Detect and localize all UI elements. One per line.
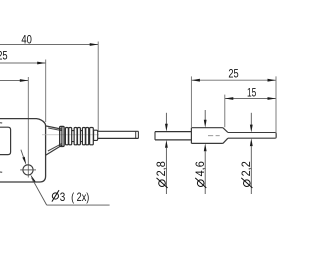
screw hole crosshair horizontal: [20, 169, 36, 171]
display window rounded rect: [0, 127, 11, 154]
dia 4.6 label: [193, 161, 207, 188]
bellows valley 2: [80, 131, 82, 142]
cable left view: [98, 131, 139, 138]
hole label diameter symbol: [52, 193, 58, 199]
svg-text:2,8: 2,8: [154, 161, 168, 177]
dimension 40 line: [0, 44, 98, 46]
leader underline: [47, 204, 110, 206]
dimension 15 line: [225, 98, 276, 100]
extension line body right step: [224, 95, 226, 128]
25 right arrow right: [268, 79, 277, 82]
cable right view: [155, 132, 191, 140]
dia 2.2 leader: [250, 146, 252, 194]
nose bottom inner line: [48, 144, 62, 151]
25 right arrow left: [191, 79, 200, 82]
bellows bump 3: [82, 128, 85, 145]
svg-text:40: 40: [21, 33, 32, 47]
dia 2.8 upper arrow: [165, 124, 168, 132]
dia 4.6 leader: [204, 151, 206, 194]
probe body chamfer bottom: [223, 138, 228, 143]
leader line lower segment: [32, 178, 47, 205]
dimension 25 arrow: [37, 62, 46, 65]
dia 2.8 upper arrow line: [165, 113, 167, 124]
strain relief clamp ring: [60, 126, 64, 146]
leader line upper segment for hole dia: [21, 150, 24, 157]
dia 4.6 lower arrow: [204, 143, 207, 151]
dia 2.2 label: [239, 161, 253, 188]
probe tip end cap: [275, 133, 276, 139]
bellows end sleeve: [94, 130, 98, 140]
extension line body left: [190, 76, 192, 127]
nose top inner line: [48, 128, 62, 131]
cut feature tick upper left edge: [0, 122, 2, 124]
leader lower arrow: [30, 174, 35, 182]
dimension extension line down to screw hole: [27, 77, 29, 178]
bellows bump 2: [74, 128, 77, 145]
bellows valley 3: [88, 131, 91, 142]
svg-text:25: 25: [228, 67, 239, 81]
cable end cap: [137, 131, 139, 138]
screw hole circle: [23, 165, 33, 175]
dia 2.8 label: [154, 161, 168, 188]
15 arrow right: [268, 97, 277, 100]
svg-text:2,2: 2,2: [239, 161, 253, 176]
centerline dashes right view: [208, 135, 220, 137]
svg-text:25: 25: [0, 48, 8, 62]
nose top taper: [46, 126, 62, 129]
leader upper arrow: [22, 157, 26, 165]
dimension 40 extension line: [97, 42, 99, 132]
dimension 25 extension line: [45, 60, 47, 123]
clamp ring inner line: [61, 127, 63, 146]
nose bottom taper: [46, 145, 62, 155]
dimension 40 arrow: [90, 43, 99, 46]
extension line tip end: [275, 76, 277, 137]
bellows bump 4: [90, 128, 94, 145]
housing body outline: [0, 119, 46, 182]
svg-text:( 2x): ( 2x): [71, 190, 89, 204]
dia 4.6 upper arrow: [204, 120, 207, 128]
cable left cap: [154, 132, 156, 140]
dimension arrow: [20, 79, 29, 82]
svg-text:3: 3: [60, 190, 66, 204]
svg-text:15: 15: [247, 85, 257, 99]
dimension 25 (right) line: [191, 79, 276, 81]
dimension 25 (left view) line: [0, 62, 46, 64]
dia 2.2 lower arrow: [250, 138, 253, 146]
cut feature tick lower left edge: [0, 171, 2, 173]
centerline left view: [42, 134, 99, 136]
dia 2.8 leader: [165, 148, 167, 194]
bellows valley 1: [72, 131, 74, 142]
dia 4.6 upper arrow line: [204, 110, 206, 120]
svg-text:4,6: 4,6: [193, 161, 207, 177]
probe body: [191, 128, 223, 144]
dia 2.8 lower arrow: [165, 140, 168, 148]
cable end fitting line: [135, 131, 137, 138]
dimension (unlabeled, cut) line: [0, 80, 28, 82]
probe body chamfer top: [223, 128, 228, 133]
15 arrow left: [225, 97, 234, 100]
dia 2.2 upper arrow: [250, 125, 253, 133]
dia 2.2 upper arrow line: [250, 113, 252, 125]
bellows bump 1: [65, 128, 68, 145]
probe tip: [228, 133, 275, 139]
